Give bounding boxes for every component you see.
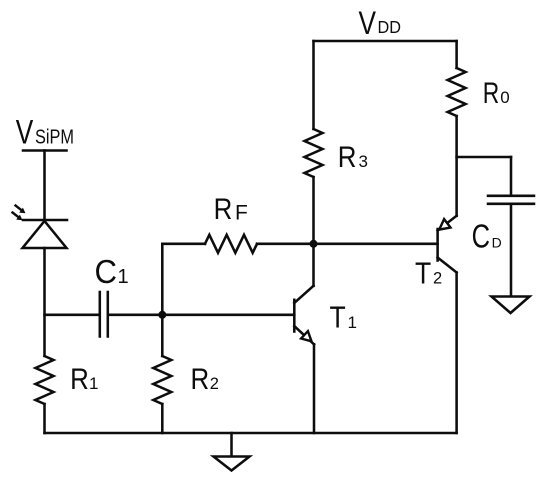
wire: [457, 156, 511, 159]
svg-text:SiPM: SiPM: [35, 127, 74, 149]
transistor T1: [294, 286, 357, 345]
wire: [312, 41, 315, 129]
svg-text:C: C: [472, 218, 490, 255]
wire: [162, 314, 294, 317]
wire: [161, 404, 164, 433]
svg-text:V: V: [359, 5, 377, 41]
svg-text:1: 1: [118, 266, 129, 288]
photodiode D1: [13, 206, 68, 249]
svg-text:V: V: [16, 114, 34, 152]
svg-text:T: T: [415, 256, 431, 291]
transistor T2: [415, 216, 457, 291]
svg-text:3: 3: [359, 152, 368, 171]
svg-text:C: C: [95, 253, 118, 290]
resistor R1: [36, 356, 99, 404]
wire: [43, 151, 46, 221]
bottom rail: [45, 432, 457, 435]
wire: [109, 314, 162, 317]
wire: [455, 116, 458, 216]
capacitor C1: [95, 253, 129, 336]
svg-text:DD: DD: [378, 17, 402, 37]
wire: [313, 344, 316, 433]
svg-text:2: 2: [433, 270, 442, 288]
svg-text:T: T: [330, 300, 346, 335]
svg-text:R: R: [214, 193, 233, 226]
capacitor CD: [472, 196, 534, 255]
svg-text:R: R: [338, 141, 357, 174]
wire VDD rail: [314, 40, 457, 43]
wire: [161, 244, 164, 356]
resistor R3: [305, 129, 368, 177]
svg-text:0: 0: [500, 88, 509, 107]
svg-text:R: R: [483, 77, 500, 110]
wire: [43, 404, 46, 433]
ground: [214, 433, 250, 471]
wire: [45, 314, 99, 317]
node B: [310, 240, 318, 248]
resistor R2: [153, 356, 219, 404]
ground: [492, 297, 530, 314]
svg-text:F: F: [235, 201, 248, 224]
svg-text:R: R: [70, 363, 89, 396]
wire: [314, 243, 438, 246]
wire: [43, 248, 46, 356]
resistor RF: [162, 193, 313, 253]
node A: [158, 311, 166, 319]
wire: [510, 157, 513, 196]
svg-text:2: 2: [210, 375, 219, 393]
wire: [510, 204, 513, 297]
wire: [455, 273, 458, 434]
svg-text:1: 1: [348, 313, 357, 332]
wire: [312, 177, 315, 286]
svg-text:1: 1: [89, 374, 98, 393]
resistor R0: [448, 41, 510, 116]
svg-text:D: D: [492, 235, 502, 251]
svg-text:R: R: [191, 363, 210, 396]
terminal VSiPM: [23, 149, 67, 152]
